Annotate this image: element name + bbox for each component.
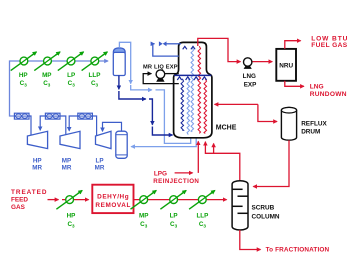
svg-text:LP: LP: [67, 72, 75, 79]
svg-text:HP: HP: [33, 157, 42, 164]
svg-text:MR: MR: [32, 165, 42, 172]
svg-text:EXP: EXP: [244, 81, 257, 88]
svg-text:MCHE: MCHE: [216, 125, 237, 132]
svg-text:FUEL GAS: FUEL GAS: [311, 42, 348, 49]
svg-text:RUNDOWN: RUNDOWN: [310, 91, 347, 98]
svg-text:MP: MP: [62, 157, 71, 164]
svg-text:REFLUX: REFLUX: [301, 120, 327, 127]
svg-text:MR LIQ EXP: MR LIQ EXP: [143, 64, 178, 70]
svg-text:LLP: LLP: [89, 72, 101, 79]
svg-text:TREATED: TREATED: [11, 189, 47, 196]
svg-text:REMOVAL: REMOVAL: [95, 202, 130, 209]
svg-text:FEED: FEED: [11, 197, 28, 204]
svg-text:REINJECTION: REINJECTION: [153, 178, 199, 185]
svg-text:GAS: GAS: [11, 204, 26, 211]
svg-text:DRUM: DRUM: [301, 129, 320, 136]
svg-text:LP: LP: [170, 212, 178, 219]
svg-text:COLUMN: COLUMN: [252, 213, 280, 220]
svg-text:NRU: NRU: [279, 62, 293, 69]
svg-text:LLP: LLP: [196, 212, 208, 219]
svg-text:SCRUB: SCRUB: [252, 204, 275, 211]
svg-text:LNG: LNG: [243, 73, 256, 80]
svg-text:LP: LP: [95, 157, 103, 164]
svg-text:HP: HP: [19, 72, 28, 79]
svg-text:MR: MR: [62, 165, 72, 172]
svg-text:LPG: LPG: [154, 171, 167, 178]
svg-text:LNG: LNG: [310, 83, 324, 90]
svg-text:To FRACTIONATION: To FRACTIONATION: [266, 246, 330, 253]
svg-text:MP: MP: [139, 212, 148, 219]
svg-text:HP: HP: [67, 212, 76, 219]
svg-text:DEHY/Hg: DEHY/Hg: [97, 194, 129, 201]
svg-text:MR: MR: [95, 165, 105, 172]
svg-text:MP: MP: [42, 72, 51, 79]
